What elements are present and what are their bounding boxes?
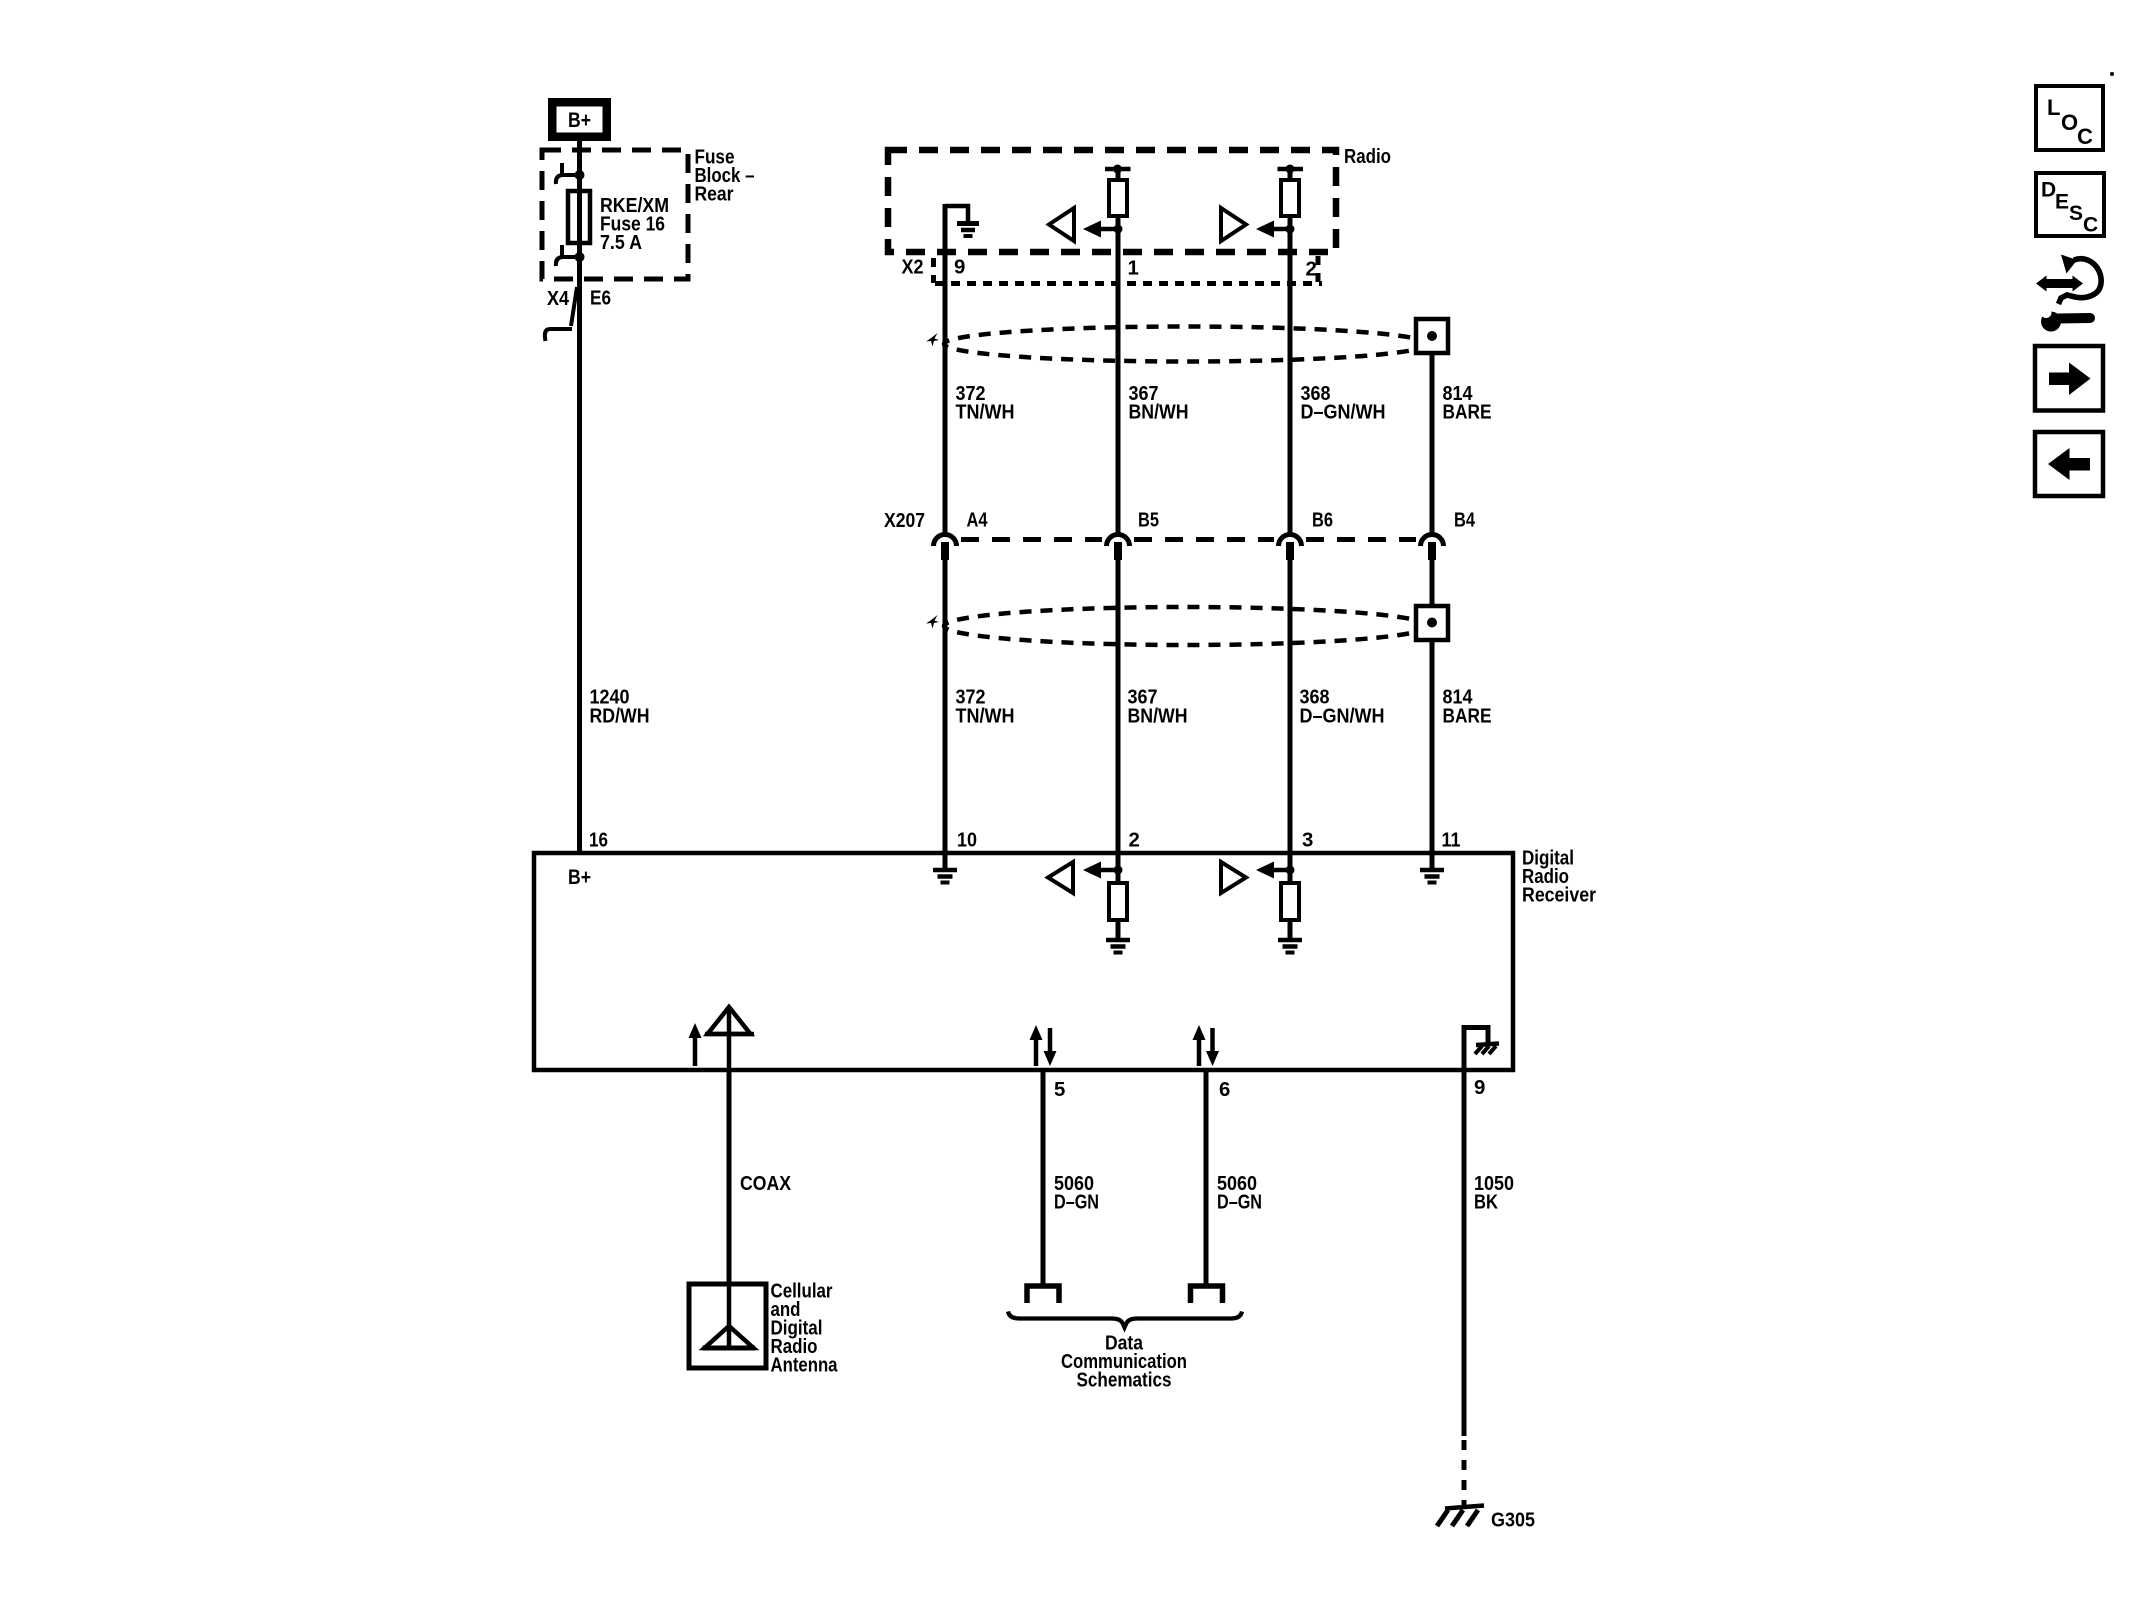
receiver internal arrow + open triangle at pin 2: [1116, 855, 1121, 883]
icon: previous arrow box: [2035, 432, 2103, 496]
icon: LOC box: [2036, 86, 2103, 150]
svg-text:Antenna: Antenna: [771, 1355, 839, 1377]
wire 1050 BK (pin 9): [1462, 1069, 1467, 1436]
receiver internal resistor at pin 3: [1281, 883, 1299, 920]
X207 pin B5: [1107, 535, 1130, 547]
svg-text:B5: B5: [1138, 510, 1159, 532]
svg-text:A4: A4: [967, 510, 989, 532]
receiver internal data arrows at pin 6: [1197, 1038, 1202, 1066]
svg-text:Radio: Radio: [1344, 146, 1391, 168]
twist tail mark (lower): [926, 615, 939, 629]
svg-text:D–GN/WH: D–GN/WH: [1300, 706, 1385, 728]
svg-text:D–GN/WH: D–GN/WH: [1301, 402, 1386, 424]
svg-text:L: L: [2047, 95, 2060, 120]
X207 connector dashed line: [961, 537, 1102, 542]
svg-text:D: D: [2041, 179, 2056, 202]
svg-text:TN/WH: TN/WH: [956, 402, 1015, 424]
svg-text:BARE: BARE: [1443, 402, 1492, 424]
Radio dashed box: [888, 150, 1336, 252]
icon: service/repair (arrows + wrench): [2045, 279, 2074, 288]
wire: B+ feed down to receiver pin 16 (1240 RD/WH): [577, 139, 582, 855]
COAX wire: [727, 1069, 732, 1286]
stray dot: [2110, 72, 2114, 76]
ground G305: [1445, 1506, 1484, 1509]
svg-text:S: S: [2069, 202, 2083, 225]
radio internal ground (pin 9): [945, 206, 968, 221]
receiver internal up arrow (antenna): [693, 1036, 698, 1066]
twisted pair ellipse (lower): [944, 607, 1428, 645]
svg-text:BARE: BARE: [1443, 706, 1492, 728]
svg-text:B4: B4: [1454, 510, 1476, 532]
svg-text:E6: E6: [590, 288, 611, 310]
connector X4 / E6: [571, 287, 577, 326]
svg-text:X4: X4: [547, 288, 570, 310]
off-page bracket (pin 6): [1191, 1286, 1223, 1303]
svg-text:7.5 A: 7.5 A: [600, 232, 642, 254]
fuse block terminal (bottom): [562, 255, 580, 259]
svg-text:9: 9: [954, 257, 965, 279]
X207 pin A4: [934, 535, 957, 547]
svg-text:3: 3: [1302, 830, 1313, 852]
X207 pin B4: [1421, 535, 1444, 547]
Digital Radio Receiver box: [534, 853, 1513, 1070]
svg-text:5: 5: [1054, 1079, 1065, 1101]
receiver internal arrow + open triangle at pin 3: [1288, 855, 1293, 883]
svg-text:RD/WH: RD/WH: [590, 706, 650, 728]
svg-text:E: E: [2055, 191, 2069, 214]
icon: DESC box: [2036, 173, 2104, 236]
off-page bracket (pin 5): [1027, 1286, 1059, 1303]
connector X2: [931, 258, 936, 283]
svg-text:9: 9: [1474, 1077, 1485, 1099]
svg-text:B+: B+: [568, 109, 591, 132]
radio internal resistor at pin 2: [1278, 167, 1304, 172]
radio internal resistor at pin 1: [1105, 167, 1131, 172]
icon: next arrow box: [2035, 346, 2103, 411]
wire 367 BN/WH (lower): [1116, 558, 1121, 855]
receiver internal data arrows at pin 5: [1034, 1038, 1039, 1066]
X207 pin B6: [1279, 535, 1302, 547]
receiver internal chassis ground at pin 9: [1462, 1025, 1467, 1069]
wire 368 D-GN/WH (lower): [1288, 558, 1293, 855]
svg-text:2: 2: [1129, 830, 1140, 852]
radio internal open triangle (output) at pin 2: [1221, 208, 1246, 241]
receiver internal ground below resistor (pin 3): [1278, 938, 1302, 943]
twisted pair ellipse (upper): [944, 327, 1428, 362]
svg-text:D–GN: D–GN: [1054, 1192, 1099, 1214]
svg-text:COAX: COAX: [740, 1173, 791, 1195]
svg-text:C: C: [2083, 214, 2098, 237]
svg-text:6: 6: [1219, 1079, 1230, 1101]
svg-text:Schematics: Schematics: [1077, 1370, 1172, 1392]
receiver internal ground at pin 11: [1430, 855, 1435, 868]
svg-text:D–GN: D–GN: [1217, 1192, 1262, 1214]
svg-text:C: C: [2077, 124, 2093, 149]
fuse RKE/XM Fuse 16 7.5 A: [568, 191, 590, 243]
svg-text:X2: X2: [902, 257, 924, 279]
svg-text:B+: B+: [568, 866, 591, 889]
wire 372 TN/WH (lower): [943, 558, 948, 855]
svg-text:BN/WH: BN/WH: [1129, 402, 1189, 424]
wire 814 BARE (lower): [1430, 558, 1435, 608]
svg-text:Rear: Rear: [695, 184, 734, 206]
radio internal open triangle (input) at pin 1: [1049, 208, 1074, 241]
Cellular and Digital Radio Antenna box: [689, 1284, 766, 1368]
svg-text:BN/WH: BN/WH: [1128, 706, 1188, 728]
svg-text:BK: BK: [1474, 1192, 1498, 1214]
radio internal arrow at pin 1: [1098, 227, 1118, 232]
wire 372 TN/WH (upper): [943, 204, 948, 533]
fuse block terminal (top): [562, 173, 580, 177]
shield termination box (lower): [1416, 606, 1448, 640]
svg-text:Receiver: Receiver: [1522, 885, 1596, 907]
svg-text:B6: B6: [1312, 510, 1333, 532]
svg-text:TN/WH: TN/WH: [956, 706, 1015, 728]
svg-text:1: 1: [1128, 258, 1139, 280]
brace: Data Communication Schematics: [1008, 1312, 1242, 1328]
svg-text:10: 10: [957, 830, 977, 852]
twist tail mark (upper): [926, 333, 939, 347]
radio internal arrow at pin 2: [1272, 227, 1290, 232]
shield termination box (upper): [1416, 319, 1448, 353]
svg-text:X207: X207: [884, 510, 925, 532]
svg-text:G305: G305: [1491, 1510, 1535, 1532]
power feed box B+: [548, 98, 611, 141]
receiver internal ground below resistor (pin 2): [1106, 938, 1130, 943]
receiver internal resistor at pin 2: [1109, 883, 1127, 920]
svg-text:16: 16: [589, 830, 608, 852]
fuse block - rear dashed box: [542, 150, 688, 279]
antenna symbol in antenna box: [727, 1284, 732, 1348]
svg-text:O: O: [2061, 110, 2078, 135]
svg-text:2: 2: [1306, 259, 1317, 281]
wire 5060 D-GN (pin 5): [1041, 1069, 1046, 1286]
svg-text:11: 11: [1442, 830, 1461, 852]
receiver internal ground at pin 10: [943, 855, 948, 868]
wire 814 BARE (upper): [1430, 350, 1435, 533]
wire 5060 D-GN (pin 6): [1204, 1069, 1209, 1286]
receiver internal antenna symbol: [727, 1006, 732, 1069]
wire 367 BN/WH (upper): [1116, 169, 1121, 180]
wire 368 D-GN/WH (upper): [1288, 169, 1293, 180]
